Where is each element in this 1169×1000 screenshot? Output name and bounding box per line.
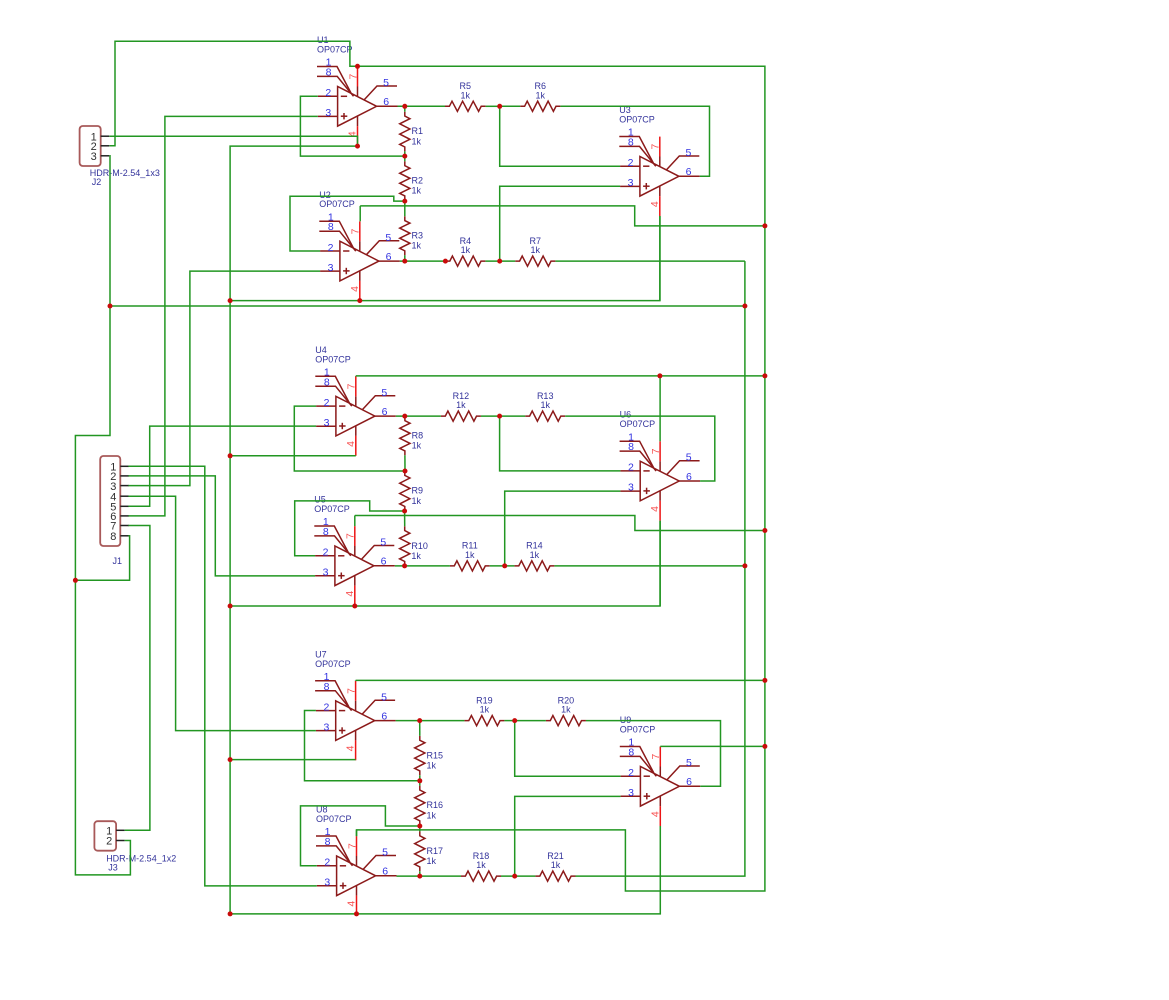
junction node V+ b3b [762,744,767,749]
svg-text:2: 2 [325,87,331,99]
op-amp U1 [317,35,398,146]
svg-text:R17: R17 [427,846,444,856]
svg-text:J3: J3 [108,863,118,873]
svg-text:R2: R2 [412,176,424,186]
svg-text:3: 3 [323,567,329,579]
svg-text:7: 7 [345,533,357,539]
svg-text:6: 6 [382,406,388,418]
svg-text:2: 2 [628,157,634,169]
junction node R9-R10 [402,509,407,514]
wire node5 to R13 [500,415,526,417]
svg-text:1k: 1k [411,551,421,561]
resistor R8 [400,416,423,455]
junction node return4 [73,578,78,583]
wire U4 pin7 to V+ [356,375,765,377]
resistor R16 [415,786,443,826]
junction node U5.out [402,563,407,568]
op-amp U3 [619,105,700,216]
svg-text:7: 7 [650,144,662,150]
svg-text:OP07CP: OP07CP [619,115,655,125]
wire R20 to U9 feedback [586,721,721,787]
resistor R14 [514,541,554,571]
svg-text:1k: 1k [427,761,437,771]
wire U9 pin7 stub [659,745,661,747]
junction node R4-R7 [497,259,502,264]
svg-text:U4: U4 [315,345,327,355]
junction node U5.4 [352,604,357,609]
svg-text:5: 5 [381,691,387,703]
svg-text:3: 3 [628,177,634,189]
svg-text:OP07CP: OP07CP [315,354,351,364]
wire U4 pin7 stub [355,375,357,378]
wire R4 to node4 [485,260,515,262]
svg-text:R15: R15 [427,750,444,760]
wire U5 pin7 supply [354,516,356,527]
svg-text:3: 3 [91,151,97,163]
wire R2 to node3 [404,199,406,202]
svg-text:5: 5 [380,537,386,549]
svg-text:2: 2 [628,462,634,474]
svg-text:U5: U5 [314,495,326,505]
svg-text:1k: 1k [427,810,437,820]
wire U4 pin2 feedback [294,406,405,471]
wire J2.1 to U1 pin4 [109,136,357,146]
connector J1 [100,456,129,566]
wire U2 pin3 to J1.3 [128,271,320,486]
wire node9 to U9 pin2 [515,721,621,777]
svg-text:U7: U7 [315,649,327,659]
svg-text:4: 4 [346,901,358,907]
connector J3 [94,821,176,872]
svg-text:7: 7 [346,843,358,849]
svg-text:4: 4 [649,201,661,207]
junction node R12-R13 [497,414,502,419]
svg-text:1k: 1k [551,860,561,870]
svg-text:5: 5 [685,147,691,159]
junction node U1.4 [355,144,360,149]
junction node return3 [742,563,747,568]
svg-text:2: 2 [106,836,112,848]
wire R8 to node6 [404,455,406,471]
junction node V- rail3 [228,911,233,916]
svg-text:3: 3 [628,482,634,494]
svg-text:8: 8 [326,67,332,79]
wire U7 out to R15 [419,721,421,736]
wire V- to block1 rail [230,216,660,301]
svg-text:R16: R16 [427,800,444,810]
svg-text:5: 5 [686,757,692,769]
wire U7 out to R19 [396,720,465,722]
svg-text:3: 3 [328,262,334,274]
wire U9 pin7 to V+ [660,745,765,747]
wire node7 to R10 [404,511,406,526]
svg-text:5: 5 [381,387,387,399]
svg-text:1k: 1k [531,245,541,255]
wire U8 pin2 feedback [301,806,420,866]
svg-text:U1: U1 [317,35,329,45]
wire return rail block1 [110,305,745,307]
op-amp U9 [620,715,701,826]
wire V- to block3 rail [230,826,660,914]
connector J2 [80,126,160,187]
wire U7 pin2 feedback [305,711,420,781]
junction node V+ b2a [762,373,767,378]
svg-text:1k: 1k [427,856,437,866]
wire U7 pin7 to V+ [356,679,765,681]
wire node6 to R9 [404,470,406,472]
wire R1 to node2 [404,151,406,156]
junction node V+ b3a [762,678,767,683]
svg-text:7: 7 [346,688,358,694]
svg-text:R1: R1 [412,126,424,136]
svg-text:3: 3 [323,721,329,733]
svg-text:3: 3 [324,877,330,889]
svg-text:4: 4 [649,811,661,817]
svg-text:6: 6 [686,166,692,178]
junction node R18-R21 [512,874,517,879]
resistor R19 [464,695,504,725]
svg-text:6: 6 [381,711,387,723]
wire J1.7 to J3.1 [125,526,150,831]
junction node U2.out [402,259,407,264]
svg-text:R10: R10 [411,541,428,551]
wire wireB block2 [230,455,356,457]
svg-text:3: 3 [628,787,634,799]
wire R19 to node9 [504,720,514,722]
resistor R5 [445,81,486,111]
wire U2 pin4 stub [359,300,361,302]
svg-text:OP07CP: OP07CP [620,419,656,429]
svg-text:1k: 1k [480,705,490,715]
wire J2.3 down [75,156,130,875]
svg-text:2: 2 [324,857,330,869]
wire R14 to return rail [554,565,745,567]
op-amp U7 [315,649,396,760]
wire U6 pin7 up [659,376,661,441]
wire U1 pin4 to V- rail [230,146,357,914]
svg-text:3: 3 [325,107,331,119]
svg-text:OP07CP: OP07CP [315,659,351,669]
svg-text:7: 7 [650,754,662,760]
svg-text:1k: 1k [412,441,422,451]
svg-text:8: 8 [324,681,330,693]
resistor R13 [525,391,565,421]
junction node wireB3 [228,757,233,762]
wire node11 to R17 [419,826,421,831]
wire U8 pin7 supply [356,830,358,836]
svg-text:1k: 1k [530,550,540,560]
svg-text:7: 7 [346,383,358,389]
svg-text:U6: U6 [620,410,632,420]
junction node V+ b1 [762,223,767,228]
svg-text:5: 5 [686,452,692,464]
svg-text:J1: J1 [113,556,123,566]
wire node2 to R2 [404,156,406,161]
junction node R11-R14 [502,563,507,568]
svg-text:6: 6 [386,251,392,263]
wire U8 pin3 to J1.1 [128,466,316,886]
wire R13 to U6 feedback [565,416,715,481]
svg-text:1k: 1k [412,241,422,251]
resistor R20 [546,695,586,725]
junction node U8.out [417,874,422,879]
wire U7 pin3 to J1.4 [128,496,316,730]
svg-text:1k: 1k [465,550,475,560]
svg-text:8: 8 [628,137,634,149]
wire U4 out to R12 [396,415,441,417]
wire J2.2 to V+ top [109,41,357,146]
junction node V- rail1 [228,298,233,303]
junction node U6.7 [657,373,662,378]
wire U3 pin4 down [659,216,661,301]
wire V+ rail top [357,66,765,891]
svg-text:7: 7 [347,74,359,80]
svg-text:3: 3 [324,417,330,429]
wire R12 to node5 [481,415,500,417]
wire R15 to node10 [419,775,421,781]
wire return rail vertical [576,261,745,876]
wire node12 to U9 pin3 [515,796,621,876]
wire node8 to U6 pin3 [505,491,621,566]
wire R11 to node8 [490,565,515,567]
junction node R4.a [443,259,448,264]
wire R17 to U8 out [419,871,421,876]
svg-text:OP07CP: OP07CP [316,814,352,824]
resistor R11 [450,541,490,571]
svg-text:2: 2 [628,767,634,779]
svg-text:2: 2 [328,242,334,254]
wire J1.8 to return net [75,536,129,581]
svg-text:2: 2 [323,701,329,713]
op-amp U6 [620,410,701,521]
svg-text:2: 2 [323,547,329,559]
wire U1 pin2 feedback [300,96,404,156]
junction node U1.out [402,104,407,109]
junction node wireB2 [228,453,233,458]
resistor R2 [400,161,423,200]
junction node U2.4 [357,298,362,303]
junction node R19-R20 [512,718,517,723]
junction node return1 [108,304,113,309]
svg-text:1k: 1k [461,245,471,255]
junction node U1.7 [355,64,360,69]
op-amp U5 [314,495,395,606]
svg-text:1k: 1k [540,400,550,410]
svg-text:1k: 1k [412,186,422,196]
svg-text:4: 4 [349,286,361,292]
svg-text:J2: J2 [92,177,102,187]
junction node U4.out [402,414,407,419]
wire U5 pin3 to J1.2 [128,476,315,576]
wire R10 to U5 out [404,565,406,567]
svg-text:OP07CP: OP07CP [314,504,350,514]
wire U7 pin7 stub [355,679,357,682]
wire R9 to node7 [404,510,406,512]
wire V- to block2 rail [230,521,660,606]
wire U1 pin3 to J1.6 [128,116,317,516]
svg-text:2: 2 [324,397,330,409]
wire U2 pin7 to V+ [360,206,765,226]
resistor R17 [415,831,443,871]
svg-text:1k: 1k [456,400,466,410]
svg-text:6: 6 [686,776,692,788]
svg-text:8: 8 [110,531,116,543]
resistor R15 [415,736,443,775]
resistor R10 [400,526,428,566]
wire U5 pin7 to V+ [355,516,765,531]
resistor R12 [441,391,481,421]
wire node1 to R6 [500,105,521,107]
wire U2 pin2 feedback [290,196,405,251]
svg-text:6: 6 [382,866,388,878]
svg-text:1k: 1k [561,705,571,715]
svg-text:4: 4 [649,506,661,512]
junction node U7.out [417,718,422,723]
resistor R21 [535,851,575,881]
wire node5 to U6 pin2 [500,416,621,471]
wire U8 out [397,875,462,877]
svg-text:5: 5 [385,232,391,244]
resistor R1 [400,112,423,152]
svg-text:8: 8 [325,836,331,848]
wire R16 to node11 [419,824,421,827]
svg-text:8: 8 [628,747,634,759]
wire U2 pin7 supply [359,206,361,221]
svg-text:1k: 1k [536,90,546,100]
svg-text:R9: R9 [412,486,424,496]
svg-text:OP07CP: OP07CP [620,725,656,735]
wire wireB block3 [230,759,356,761]
resistor R4 [445,236,485,266]
resistor R9 [400,471,423,511]
junction node V- rail2 [228,604,233,609]
op-amp U8 [316,805,397,916]
wire U4 pin3 to J1.5 [128,426,316,506]
op-amp U4 [315,345,396,456]
junction node R16-R17 [417,824,422,829]
svg-text:4: 4 [345,441,357,447]
svg-text:4: 4 [344,591,356,597]
op-amp U2 [319,190,400,301]
svg-text:OP07CP: OP07CP [317,45,353,55]
svg-text:R3: R3 [412,230,424,240]
svg-text:5: 5 [382,847,388,859]
wire U6 pin4 down [659,521,661,606]
resistor R6 [520,81,560,111]
svg-text:5: 5 [383,77,389,89]
svg-text:4: 4 [345,745,357,751]
svg-text:6: 6 [381,556,387,568]
wire U1 out to R1 [404,106,406,111]
svg-text:1k: 1k [476,860,486,870]
svg-text:R8: R8 [412,431,424,441]
junction node R5-R6 [497,104,502,109]
resistor R7 [515,236,555,266]
wire R5 to node1 [486,105,500,107]
junction node V+ b2b [762,528,767,533]
wire node1 to U3 pin2 [500,106,620,166]
svg-text:8: 8 [324,376,330,388]
svg-text:8: 8 [628,441,634,453]
junction node U8.4 [354,911,359,916]
wire U5 pin4 stub [354,605,356,608]
wire U5 pin2 feedback [295,501,405,556]
svg-text:OP07CP: OP07CP [319,199,355,209]
svg-text:8: 8 [323,526,329,538]
wire U5 out [395,565,450,567]
wire U4 out to R8 [404,415,406,417]
wire node4 to U3 pin3 [500,186,620,261]
svg-text:6: 6 [686,471,692,483]
wire node10 to R16 [419,781,421,786]
svg-text:6: 6 [383,96,389,108]
svg-text:7: 7 [350,228,362,234]
wire node9 to R20 [515,720,546,722]
wire R3 to U2 out [404,255,406,261]
wire U1 out to R5 [398,105,446,107]
svg-text:1k: 1k [412,496,422,506]
resistor R3 [400,216,423,255]
wire R6 to U3 feedback [560,106,709,176]
wire node3 to R3 [404,201,406,216]
resistor R18 [461,851,501,881]
svg-text:7: 7 [650,448,662,454]
svg-text:8: 8 [328,221,334,233]
svg-text:1k: 1k [461,90,471,100]
junction node R1-R2 [402,154,407,159]
wire U2 out [400,260,446,262]
svg-text:1k: 1k [412,137,422,147]
junction node R15-R16 [417,778,422,783]
junction node R2-R3 [402,199,407,204]
wire R7 to return rail [555,260,745,262]
junction node return2 [742,304,747,309]
wire R18 to node12 [501,875,535,877]
junction node R8-R9 [403,469,408,474]
